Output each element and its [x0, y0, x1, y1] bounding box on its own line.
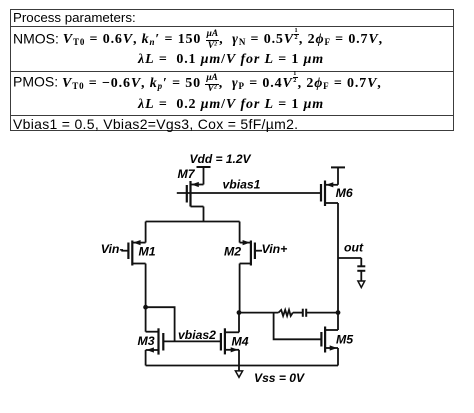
wire Vss bottom rail: [146, 365, 338, 367]
svg-text:M4: M4: [232, 335, 249, 349]
svg-text:out: out: [344, 241, 364, 255]
svg-text:M5: M5: [336, 333, 353, 347]
transistor M4 (NMOS mirror): [221, 313, 239, 366]
svg-text:M1: M1: [139, 245, 156, 259]
transistor M3 (NMOS diode-connected): [146, 307, 164, 365]
row 3: PMOS line 1: [13, 71, 382, 95]
row 4: bias values: [13, 116, 298, 132]
wire out rail (M6 drain to M5 drain): [337, 203, 339, 330]
Vdd supply bar above M6: [331, 167, 345, 184]
resistor Rz (compensation): [279, 310, 293, 316]
wire vbias2 (M3 gate to M4 gate): [163, 340, 221, 342]
row 1: Process parameters: [13, 10, 136, 25]
svg-text:vbias1: vbias1: [223, 178, 261, 192]
capacitor Cc (compensation): [303, 309, 306, 317]
svg-text:M2: M2: [224, 245, 241, 259]
wire M3 diode connection: [146, 307, 175, 341]
wire resistor to capacitor: [293, 312, 303, 314]
wire out stub: [338, 257, 361, 259]
transistor M6 (PMOS): [321, 181, 338, 207]
wire capacitor to out rail: [306, 312, 338, 314]
node B junction dot (M2/M4 drains): [237, 310, 242, 315]
transistor M1 (PMOS, left input): [121, 222, 145, 308]
load capacitor CL: [357, 258, 365, 281]
node out junction dot: [336, 310, 341, 315]
transistor M5 (NMOS output): [321, 327, 338, 366]
svg-text:M3: M3: [138, 334, 155, 348]
wire node B branch to M5 gate: [274, 313, 322, 340]
row 2: NMOS line 2: [138, 52, 324, 68]
svg-text:M7: M7: [178, 167, 196, 181]
svg-text:Vdd = 1.2V: Vdd = 1.2V: [190, 152, 252, 166]
svg-text:Vin+: Vin+: [262, 242, 288, 256]
process parameters table: [10, 9, 454, 131]
transistor M2 (PMOS, right input): [240, 222, 262, 313]
wire node B to resistor: [239, 312, 279, 314]
node A junction dot (M1 drain / M3): [143, 305, 148, 310]
transistor M7 (PMOS): [187, 181, 204, 222]
row 3: PMOS line 2: [138, 97, 324, 113]
svg-text:Vin-: Vin-: [101, 242, 124, 256]
svg-text:vbias2: vbias2: [178, 328, 216, 342]
svg-text:M6: M6: [336, 186, 353, 200]
ground symbol at load: [358, 281, 365, 288]
row 2: NMOS line 1: [13, 28, 383, 52]
wire vbias1 (M7 gate to M6 gate): [177, 192, 320, 194]
svg-text:Vss = 0V: Vss = 0V: [254, 371, 305, 385]
Vdd supply bar above M7: [197, 167, 211, 185]
ground symbol Vss: [235, 366, 242, 378]
wire tail rail (M7 drain to M1/M2 sources): [146, 221, 240, 223]
